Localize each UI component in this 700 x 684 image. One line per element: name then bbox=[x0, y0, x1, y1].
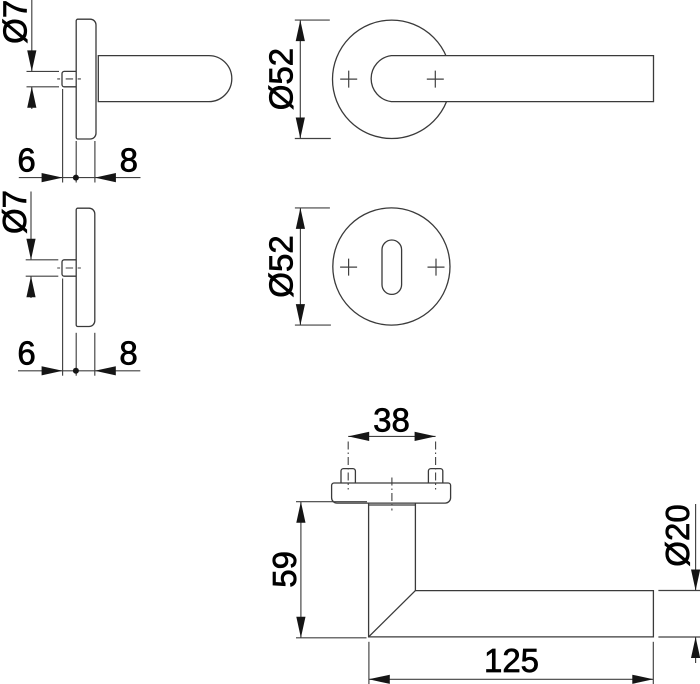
svg-text:6: 6 bbox=[17, 141, 35, 178]
svg-text:Ø20: Ø20 bbox=[659, 504, 696, 566]
svg-text:8: 8 bbox=[119, 335, 137, 372]
svg-text:8: 8 bbox=[120, 141, 138, 178]
svg-text:Ø7: Ø7 bbox=[0, 0, 33, 44]
svg-text:38: 38 bbox=[373, 401, 410, 438]
svg-text:Ø52: Ø52 bbox=[262, 235, 299, 297]
svg-text:Ø52: Ø52 bbox=[262, 48, 299, 110]
svg-text:6: 6 bbox=[17, 335, 35, 372]
svg-text:125: 125 bbox=[484, 642, 539, 679]
svg-text:59: 59 bbox=[266, 551, 303, 588]
svg-text:Ø7: Ø7 bbox=[0, 190, 33, 234]
